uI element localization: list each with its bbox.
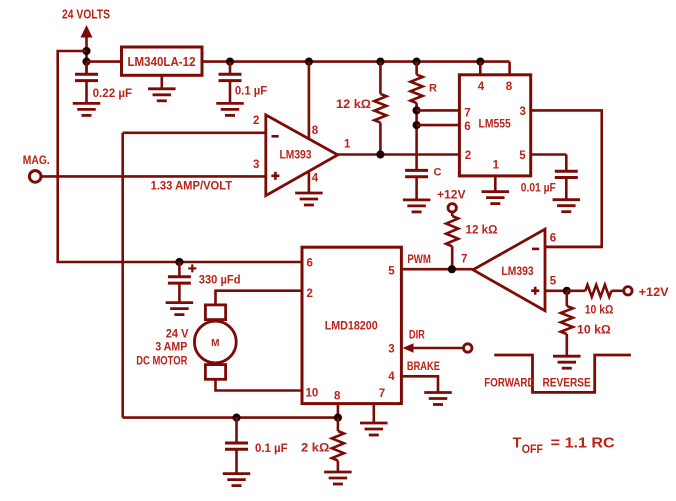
motor M1 top terminal [205,305,225,320]
svg-text:LMD18200: LMD18200 [325,319,378,333]
capacitor C timing [405,170,428,200]
svg-text:12 kΩ: 12 kΩ [466,223,498,237]
svg-text:OFF: OFF [522,442,543,456]
junction PWM node [448,265,456,273]
resistor R3 12k [446,212,458,269]
wire 24V to LMD pin6 rail [58,51,302,262]
ground for U3 [295,193,323,205]
svg-text:LM555: LM555 [479,119,512,131]
resistor R timing [411,58,423,171]
ground for C1 [73,103,101,115]
svg-text:+12V: +12V [437,188,466,202]
svg-text:4: 4 [478,81,485,93]
U3 minus sign [272,135,279,138]
wire U1 pin1 ground [494,176,497,192]
node B junction dot [82,58,90,66]
motor M1 bottom terminal [205,365,225,380]
junction 2k pin8 [334,414,342,422]
wire U5 pin5 PWM [401,268,473,271]
label 10 kOhm R5 [577,323,611,337]
ground for R6 [324,472,352,484]
capacitor C5 330uFd [168,262,191,303]
U5 pin 6 label [307,258,313,270]
label 1.33 AMP/VOLT [151,179,233,193]
label 3 AMP [155,340,187,354]
wire U5 pin8 stub [337,404,340,418]
label 0.22 uF [93,86,133,100]
label 0.1 uF bottom [255,441,288,455]
svg-text:12 kΩ: 12 kΩ [336,97,371,111]
U4 minus sign [532,248,539,251]
U5 pin 8 label [334,391,341,403]
svg-text:1.33 AMP/VOLT: 1.33 AMP/VOLT [151,179,233,193]
U5 pin 5 label [388,266,395,278]
svg-text:8: 8 [312,125,319,137]
wire U5 pin7 ground [372,404,375,423]
U3 pin 3 label [253,159,259,171]
U3 plus sign [271,172,279,180]
svg-text:LM393: LM393 [280,149,312,161]
waveform forward-reverse [494,355,631,392]
svg-text:R: R [429,83,437,95]
junction R pin6 [413,121,421,129]
svg-text:5: 5 [388,266,395,278]
label 2 kOhm [301,441,330,455]
U1 pin 6 label [464,121,470,133]
ground for R5 [553,356,581,368]
svg-text:2: 2 [307,288,313,300]
label LM393 U4 [501,266,533,278]
U1 pin 3 label [520,106,526,118]
wire 12V rail [202,60,510,63]
label BRAKE [407,361,440,373]
ground for C4 [553,200,581,212]
wire U3 out to U1 pin2 [338,153,460,156]
wire MAG to U3 pin3 [41,175,266,178]
op-amp U4 LM393 triangle [473,229,545,311]
wire feedback vertical [121,133,124,418]
ground for U1 [482,192,510,204]
ground for U5 pin7 [360,423,388,435]
svg-text:5: 5 [519,150,526,162]
label 24 V [166,327,189,341]
svg-text:C: C [434,167,442,179]
svg-text:3 AMP: 3 AMP [155,340,187,354]
svg-text:6: 6 [464,121,470,133]
U4 pin 5 label [550,276,557,288]
label PWM [407,254,431,266]
U5 pin 3 label [388,344,394,356]
svg-text:DIR: DIR [409,330,426,342]
svg-text:4: 4 [312,173,319,185]
motor M1 body [194,321,236,363]
U4 pin 7 label [461,254,467,266]
junction 12k bottom [376,150,384,158]
svg-text:LM340LA-12: LM340LA-12 [128,55,196,69]
label LM340LA-12 [128,55,196,69]
wire rail to U3 pin8 [305,58,313,139]
terminal +12V b [624,287,632,295]
wire 24V to regulator input [87,60,122,63]
U4 plus sign [531,287,539,295]
terminal +12V a [448,204,456,212]
svg-text:2: 2 [465,150,471,162]
svg-text:8: 8 [334,391,341,403]
label 12 kOhm R2 [336,97,371,111]
wire U1 pin8 from rail [508,62,511,75]
svg-text:1: 1 [344,139,351,151]
formula Toff [513,436,616,457]
svg-text:0.22 µF: 0.22 µF [93,86,133,100]
U5 pin 4 label [388,371,395,383]
U5 pin 7 label [379,388,385,400]
svg-text:MAG.: MAG. [23,155,50,167]
svg-text:7: 7 [464,108,470,120]
power arrow 24V [81,25,93,74]
svg-text:DC MOTOR: DC MOTOR [136,354,187,368]
node A junction dot [82,47,90,55]
label 24 VOLTS [62,8,110,22]
ground for BRAKE [424,393,452,405]
svg-text:+12V: +12V [639,285,669,299]
wire U3 pin2 [123,132,266,135]
op-amp U3 LM393 triangle [266,115,338,196]
U3 pin 1 label [344,139,351,151]
U3 pin 4 ground wire [308,171,311,193]
ground for U2 [148,75,176,101]
svg-text:PWM: PWM [407,254,431,266]
wire U1 pin7 [417,109,460,112]
resistor R6 2k [332,418,344,472]
junction U4 pin5 [563,287,571,295]
svg-text:REVERSE: REVERSE [543,377,591,389]
wire U5 pin2 to motor [216,291,303,305]
ground for C6 [223,474,251,486]
svg-text:8: 8 [506,81,513,93]
svg-text:7: 7 [379,388,385,400]
capacitor C6 0.1uF [225,418,248,474]
svg-text:10 kΩ: 10 kΩ [577,323,611,337]
resistor R5 10k vertical [561,291,573,356]
label MAG. [23,155,50,167]
svg-text:10: 10 [306,388,319,400]
svg-text:5: 5 [550,276,557,288]
svg-text:2: 2 [253,115,259,127]
svg-text:3: 3 [388,344,394,356]
wire bottom sense [123,416,338,419]
U1 pin 4 label [478,81,485,93]
label LMD18200 [325,319,378,333]
capacitor C1 0.22uF [75,62,98,104]
label DC MOTOR [136,354,187,368]
U4 pin 6 label [550,232,556,244]
svg-text:3: 3 [253,159,259,171]
svg-text:24 V: 24 V [166,327,189,341]
wire U1 pin6 [417,124,460,127]
U3 pin 2 label [253,115,259,127]
label LM393 U3 [280,149,312,161]
label +12V a [437,188,466,202]
junction R pin7 [413,106,421,114]
resistor R2 12k [374,58,386,155]
capacitor C2 0.1uF [219,58,242,104]
U1 pin 7 label [464,108,470,120]
H-bridge U5 LMD18200 box [302,247,401,403]
U3 pin 4 label [312,173,319,185]
wire U5 pin4 BRAKE [401,376,438,392]
label C [434,167,442,179]
U1 pin 2 label [465,150,471,162]
U1 pin 8 label [506,81,513,93]
label R [429,83,437,95]
svg-text:0.1 µF: 0.1 µF [235,84,267,98]
svg-text:LM393: LM393 [501,266,533,278]
svg-text:M: M [211,338,219,349]
wire DIR [413,347,464,350]
wire U1 pin3 to U4 pin6 [531,110,602,247]
ground for C [403,200,431,212]
label 330 uFd [199,273,241,287]
U1 pin 5 label [519,150,526,162]
terminal DIR [464,344,472,352]
label REVERSE [543,377,591,389]
wire motor to U5 pin10 [216,379,303,390]
svg-text:6: 6 [550,232,556,244]
svg-text:= 1.1 RC: = 1.1 RC [551,436,616,452]
svg-text:24 VOLTS: 24 VOLTS [62,8,110,22]
svg-text:0.01 µF: 0.01 µF [521,181,556,195]
wire U1 pin4 from rail [476,58,484,75]
ground for C5 [166,303,194,315]
svg-text:FORWARD: FORWARD [484,377,534,389]
timer U1 LM555 box [459,75,530,176]
junction C6 [232,414,240,422]
wire U4 pin6 [545,246,602,249]
svg-text:0.1 µF: 0.1 µF [255,441,288,455]
wire U4 pin5 [545,289,567,292]
U3 pin 8 label [312,125,319,137]
svg-text:2 kΩ: 2 kΩ [301,441,330,455]
svg-text:330 µFd: 330 µFd [199,273,241,287]
svg-text:10 kΩ: 10 kΩ [585,303,614,317]
U5 pin 10 label [306,388,319,400]
label LM555 [479,119,512,131]
label 10 kOhm R4 [585,303,614,317]
svg-text:BRAKE: BRAKE [407,361,440,373]
label +12V b [639,285,669,299]
capacitor C4 0.01uF [555,171,578,200]
ground for C2 [216,103,244,115]
capacitor C4 0.01uF wire [531,155,567,172]
svg-text:7: 7 [461,254,467,266]
voltage regulator U2 LM340LA-12 box [122,47,203,75]
junction 330uF [175,258,183,266]
C5 plus sign [188,264,196,272]
label M [211,338,219,349]
svg-text:T: T [513,436,522,452]
svg-text:1: 1 [493,160,500,172]
label 12 kOhm R3 [466,223,498,237]
label 0.1 uF [235,84,267,98]
svg-text:4: 4 [388,371,395,383]
label FORWARD [484,377,534,389]
terminal MAG [29,171,41,183]
DIR arrowhead [403,343,414,353]
svg-text:6: 6 [307,258,313,270]
label 0.01 uF [521,181,556,195]
svg-text:3: 3 [520,106,526,118]
U5 pin 2 label [307,288,313,300]
label DIR [409,330,426,342]
U1 pin 1 label [493,160,500,172]
resistor R4 10k horizontal [567,285,624,297]
